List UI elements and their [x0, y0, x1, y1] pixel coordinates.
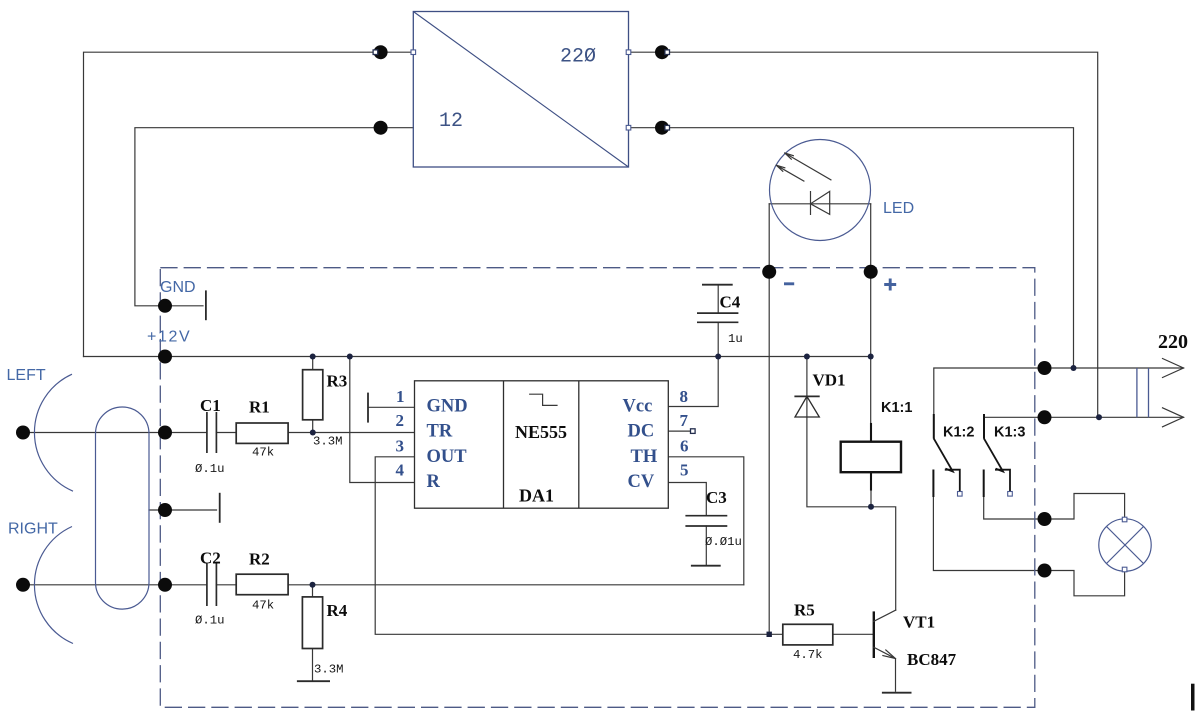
wire +12V rail: [84, 356, 871, 358]
wire R3 leads: [312, 357, 314, 433]
cable stadium symbol: [96, 407, 150, 609]
capacitor C3: [685, 516, 727, 526]
wire LED cathode drop to OUT node: [768, 204, 770, 635]
wire pin 5 CV to C3: [668, 483, 706, 516]
lamp HL1: [1099, 519, 1151, 571]
svg-text:DC: DC: [628, 422, 655, 442]
resistor R2: [236, 574, 288, 595]
svg-text:12: 12: [439, 110, 463, 133]
LED circle: [770, 140, 871, 241]
svg-text:C4: C4: [720, 293, 741, 312]
relay coil K1:1: [841, 424, 901, 490]
svg-text:Vcc: Vcc: [623, 397, 653, 417]
LED diode symbol: [811, 191, 830, 214]
svg-text:TH: TH: [631, 447, 658, 467]
svg-text:7: 7: [680, 411, 689, 430]
capacitor C1: [207, 412, 217, 453]
shield terminal bar: [219, 493, 221, 523]
svg-text:C1: C1: [200, 396, 221, 415]
wire shield stub: [149, 509, 217, 511]
svg-text:C3: C3: [706, 488, 727, 507]
arrow 220 bottom: [1163, 408, 1184, 427]
svg-text:K1:2: K1:2: [943, 425, 974, 441]
svg-text:4.7k: 4.7k: [793, 648, 823, 662]
svg-text:2: 2: [396, 411, 405, 430]
svg-text:Ø.1u: Ø.1u: [195, 462, 225, 476]
svg-text:GND: GND: [427, 397, 468, 417]
wire VD1 branch: [807, 357, 871, 507]
waveform glyph: [530, 394, 557, 405]
svg-text:+12V: +12V: [147, 329, 191, 346]
op-amp/timer U1 DA1 box: [415, 381, 669, 508]
wire pin 8 Vcc to +12V: [668, 357, 718, 407]
svg-text:1u: 1u: [728, 332, 743, 346]
svg-text:4: 4: [396, 461, 405, 480]
relay contact K1:3: [984, 414, 1010, 497]
capacitor C4: [697, 313, 738, 322]
svg-text:Ø.1u: Ø.1u: [195, 614, 225, 628]
svg-text:VD1: VD1: [813, 371, 846, 390]
wire mains top-left feed: [84, 52, 414, 356]
wire C3 lower lead: [705, 526, 707, 565]
wire transformer secondary top to right drop: [629, 52, 1098, 417]
svg-text:R4: R4: [327, 601, 348, 620]
C4 top terminal bar: [702, 284, 733, 286]
node big terminal dots: [16, 45, 1052, 592]
cable marker bars: [1137, 368, 1149, 417]
wire K1:3 top feed and 220 output bottom: [984, 417, 1184, 438]
svg-text:R: R: [427, 472, 441, 492]
svg-text:Ø.Ø1u: Ø.Ø1u: [705, 535, 742, 549]
wire K1:2 top feed and 220 output top: [934, 368, 1184, 439]
transformer terminal squares: [411, 50, 631, 130]
svg-text:NE555: NE555: [515, 422, 567, 442]
svg-text:47k: 47k: [252, 446, 274, 460]
svg-text:5: 5: [680, 461, 689, 480]
svg-text:VT1: VT1: [903, 613, 935, 632]
svg-text:K1:3: K1:3: [994, 425, 1025, 441]
label plus: [884, 279, 896, 291]
wire C4 lower stem: [717, 322, 719, 356]
resistor R3: [303, 370, 323, 420]
ground bar emitter: [882, 692, 912, 694]
right earpiece arc: [34, 527, 73, 644]
K1:3 open square: [1008, 492, 1013, 497]
svg-text:K1:1: K1:1: [881, 400, 912, 416]
wire LED anode drop to +12V: [870, 204, 872, 428]
ground bar R4: [297, 680, 330, 682]
resistor R5: [783, 624, 833, 645]
transformer T1: [413, 12, 628, 168]
small junction dots: [310, 354, 1103, 588]
lamp terminal squares: [1122, 517, 1127, 572]
wire C2 to R2: [216, 584, 236, 586]
svg-text:8: 8: [680, 387, 689, 406]
page mark bottom right: [1191, 684, 1195, 711]
arrow 220 top: [1163, 359, 1184, 378]
resistor R1: [236, 423, 288, 443]
wire pin 1 GND stub: [368, 406, 415, 408]
wire emitter to ground: [895, 659, 897, 692]
svg-text:3: 3: [396, 437, 405, 456]
wire collector riser: [871, 507, 896, 610]
ground bar C3: [691, 565, 721, 567]
wire LED horizontal: [769, 203, 871, 205]
wire LEFT input to C1: [23, 432, 207, 434]
wire K1:2 lower contact to lamp bottom: [933, 497, 1124, 596]
wire pin 3 OUT to R5: [375, 457, 783, 635]
wire R1 to pin 2 TR: [288, 432, 414, 434]
svg-text:3.3M: 3.3M: [313, 435, 343, 449]
wire R5 to base: [833, 633, 874, 635]
svg-text:GND: GND: [160, 279, 196, 296]
resistor R4: [302, 597, 322, 649]
svg-text:LEFT: LEFT: [7, 367, 46, 384]
OUT node square junction: [767, 632, 772, 637]
svg-text:R2: R2: [249, 550, 270, 569]
svg-text:TR: TR: [427, 422, 453, 442]
svg-text:LED: LED: [883, 200, 914, 217]
wire R4 leads: [312, 585, 314, 681]
svg-text:47k: 47k: [252, 599, 274, 613]
wire pin 6 TH riser: [668, 457, 744, 585]
svg-text:DA1: DA1: [519, 486, 554, 506]
svg-text:BC847: BC847: [907, 650, 957, 669]
svg-text:6: 6: [680, 437, 689, 456]
dashed device boundary box: [160, 268, 1035, 708]
svg-text:R1: R1: [249, 398, 270, 417]
wire RIGHT input to C2: [23, 584, 207, 586]
wire pin 7 DC stub: [668, 430, 690, 432]
pin 1 gnd bar: [367, 393, 369, 423]
wire pin 4 R to +12V: [350, 357, 415, 483]
transistor VT1: [874, 610, 896, 659]
svg-text:22Ø: 22Ø: [560, 46, 596, 69]
LED light arrows: [776, 153, 831, 181]
relay contact K1:2: [933, 414, 959, 497]
capacitor C2: [207, 564, 217, 607]
pin 7 open square: [691, 429, 696, 434]
svg-text:RIGHT: RIGHT: [8, 521, 58, 538]
transformer-side dark squares: [373, 50, 669, 130]
diode VD1: [794, 396, 819, 417]
svg-text:CV: CV: [628, 472, 655, 492]
svg-text:R3: R3: [327, 372, 348, 391]
svg-text:R5: R5: [794, 601, 815, 620]
gnd terminal bar top-left: [205, 290, 207, 320]
wire gnd feed from transformer 12-side: [135, 128, 413, 306]
wire C4 upper stem: [717, 285, 719, 313]
label minus: [784, 282, 794, 285]
svg-text:OUT: OUT: [427, 447, 468, 467]
svg-text:1: 1: [396, 387, 405, 406]
wire transformer secondary bottom to right drop: [629, 128, 1074, 368]
left earpiece arc: [34, 374, 73, 491]
K1:2 open square: [958, 492, 963, 497]
svg-text:C2: C2: [200, 549, 221, 568]
wire C1 to R1: [216, 432, 236, 434]
svg-text:220: 220: [1158, 331, 1188, 353]
svg-text:3.3M: 3.3M: [314, 663, 344, 677]
wire K1:3 lower contact to lamp top: [984, 494, 1125, 520]
wire coil bottom thin lead: [870, 488, 872, 507]
wire R2 to TH riser: [288, 584, 744, 586]
